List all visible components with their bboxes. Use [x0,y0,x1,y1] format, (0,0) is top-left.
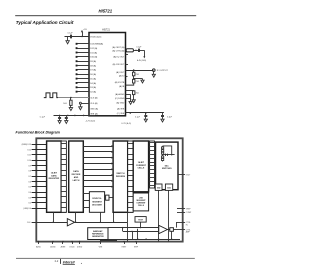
op-amp U3 control amp [159,225,168,233]
svg-text:BANDGAP: BANDGAP [93,230,103,233]
svg-text:14-BIT: 14-BIT [51,172,58,175]
svg-text:50Ω: 50Ω [167,187,171,189]
svg-text:0.1µF: 0.1µF [136,47,142,49]
wire internal VEE bus [109,239,181,241]
pin VREF [183,208,185,210]
svg-text:LATCH: LATCH [73,179,80,182]
block: switch drivers [113,141,128,212]
wire VEE bus junction segment [100,240,117,241]
svg-text:+5V: +5V [83,29,87,31]
wire VREF internal [177,208,183,210]
wire CLK [58,97,89,99]
svg-text:50Ω: 50Ω [157,187,161,189]
resistor RT2 50 ohm [165,184,172,190]
ground (C2) [58,121,61,124]
wire AGND pins [126,94,131,96]
svg-text:D2 (A): D2 (A) [90,90,96,93]
wire IOUTB return [126,83,134,85]
svg-text:(A) VEE: (A) VEE [117,108,125,111]
svg-text:DECODE: DECODE [72,174,81,176]
svg-text:AVDD: AVDD [36,246,42,249]
connector J1 IF OUTPUT [153,69,156,72]
svg-text:SWITCH: SWITCH [116,173,125,175]
ground (below R1) [69,108,72,111]
wire CTRL IN [176,222,183,224]
svg-text:DVDD: DVDD [69,247,75,249]
block: segment decode register [69,141,84,212]
pin D10 [76,56,78,58]
pin D9 [76,60,78,62]
capacitor C2 [58,117,61,119]
ground (C3) [65,121,68,124]
svg-text:(A) GND: (A) GND [116,101,124,104]
svg-text:ROW/COL: ROW/COL [92,198,102,200]
svg-text:(A) CIN OUT: (A) CIN OUT [113,63,125,66]
svg-text:-5.2V (A,D): -5.2V (A,D) [121,122,131,125]
small box B [106,195,109,200]
svg-text:D5: D5 [29,187,31,189]
svg-text:HI5721: HI5721 [102,28,110,31]
block: test logic [135,217,146,223]
transistor Q1 current source chain [162,146,175,162]
svg-text:VREF: VREF [186,208,192,210]
svg-text:D2: D2 [29,203,31,205]
block diagram outer border [36,138,182,241]
svg-text:DATA: DATA [51,174,57,177]
svg-text:CLK: CLK [27,222,31,224]
svg-text:Typical Application Circuit: Typical Application Circuit [16,20,74,25]
resistor R2 25 ohm [133,70,135,72]
svg-text:3.3µF: 3.3µF [167,116,173,118]
block: input data register [47,141,62,212]
pin AVDD [38,241,40,243]
pin D12 [76,47,78,49]
pin D3 [76,86,78,88]
svg-text:DAC: DAC [165,164,170,167]
block: current cell matrix [133,141,148,192]
ground (cluster) [129,102,132,105]
svg-text:IOUT: IOUT [186,174,191,176]
wire VREF vertical [137,229,139,239]
block: switch cell column [150,141,155,188]
wire center tap to ground [134,78,143,80]
svg-text:SWITCHES: SWITCHES [162,168,173,170]
svg-text:(C) DGND: (C) DGND [115,98,125,100]
svg-text:CLK (A): CLK (A) [90,102,98,105]
footer rule [16,257,195,260]
svg-text:-5.2V (A,D): -5.2V (A,D) [85,120,95,123]
svg-text:25Ω: 25Ω [135,74,139,76]
svg-text:D11 (A): D11 (A) [90,51,97,54]
ground (C5) [144,119,147,122]
svg-text:0.1µF: 0.1µF [40,117,46,119]
svg-text:(A) I/Q OUT: (A) I/Q OUT [113,56,125,59]
svg-text:IN: IN [186,224,188,226]
block: driver latch column [128,141,134,213]
svg-text:D12: D12 [28,149,31,151]
pin AVEE [62,241,64,243]
svg-text:DECODER: DECODER [92,205,102,207]
svg-text:D6: D6 [29,181,31,183]
wire op-amp minus input [122,228,124,232]
svg-text:Functional Block Diagram: Functional Block Diagram [16,130,61,134]
resistor R4 2k [126,90,134,92]
svg-text:CLK (A): CLK (A) [90,96,98,99]
svg-text:D9 (A): D9 (A) [90,60,96,63]
block: row/column decoder [89,192,104,213]
svg-text:A-IN (50Ω): A-IN (50Ω) [137,59,146,62]
svg-text:D11: D11 [28,155,31,157]
svg-text:AND: AND [74,176,79,179]
wire decode to decoder rows [83,194,89,208]
pin AGND [52,241,54,243]
capacitor C3 [65,117,68,119]
bus wires decode to switch drivers [83,145,113,188]
svg-text:AVEE: AVEE [61,246,66,249]
pin D7 [76,69,78,71]
clock waveform symbol [44,93,58,98]
pin D11 [76,52,78,54]
svg-text:(A) IB: (A) IB [119,85,125,88]
svg-text:AGND: AGND [50,246,56,249]
resistor R1 1k [70,98,72,101]
clock buffer U2 [67,219,74,226]
svg-text:2kΩ: 2kΩ [135,93,139,95]
svg-text:D10: D10 [28,160,31,162]
svg-text:DATA: DATA [73,170,79,173]
pin DVDD [71,241,73,243]
svg-text:D7 (A): D7 (A) [90,69,96,72]
svg-text:(A) IOUT: (A) IOUT [116,71,125,74]
svg-text:VEE (A): VEE (A) [90,112,98,115]
svg-text:D12 (A): D12 (A) [90,47,97,50]
pin D5 [76,78,78,80]
svg-text:(LSB) D0: (LSB) D0 [23,208,31,210]
svg-text:IREF: IREF [134,247,139,249]
svg-text:D3 (A): D3 (A) [90,86,96,89]
svg-text:2-2: 2-2 [55,260,59,263]
svg-text:D4 (A): D4 (A) [90,82,96,85]
svg-text:D13 (MSB)(A): D13 (MSB)(A) [90,43,103,46]
svg-text:CELLS: CELLS [138,205,145,207]
svg-text:intersil: intersil [63,260,76,264]
svg-text:D10 (A): D10 (A) [90,56,97,59]
wire IOUT to edge [178,174,185,176]
svg-text:D3: D3 [29,197,31,199]
svg-text:(A) IOUTB: (A) IOUTB [115,81,125,84]
wire clock distribution [75,222,128,224]
svg-text:(MSB) D13: (MSB) D13 [22,144,31,146]
svg-text:D8: D8 [29,171,31,173]
svg-text:(A) CTRL (A): (A) CTRL (A) [112,50,124,53]
wire to load [144,50,146,57]
svg-text:GENERATOR: GENERATOR [92,235,104,238]
svg-text:1kΩ: 1kΩ [63,103,67,105]
svg-text:SEGMENT: SEGMENT [92,201,102,203]
block: reference generator [88,228,108,240]
svg-text:D4: D4 [29,192,31,194]
pin COMP [183,212,185,214]
svg-text:CURRENT: CURRENT [136,165,147,167]
svg-text:IF OUTPUT: IF OUTPUT [157,70,169,72]
pin CTRL [183,229,185,231]
pin D4 [76,82,78,84]
wire DVDD to IC [65,36,90,38]
wire +5V vertical [82,32,84,37]
IC right pin labels [112,46,125,115]
svg-text:DRIVERS: DRIVERS [116,176,126,178]
wire reference bus 1 [108,227,159,229]
ground (R4) [132,100,135,103]
svg-text:D7: D7 [29,176,31,178]
svg-text:COMP: COMP [186,212,192,214]
resistor R3 25 ohm [133,79,135,83]
pin D13 [76,43,78,45]
svg-text:REGISTER: REGISTER [49,178,60,180]
block: DAC switches detail [156,142,179,190]
svg-text:D9: D9 [29,165,31,167]
wire -5.2V rail [54,115,96,117]
wire IOUT [126,70,153,72]
svg-text:DGND: DGND [77,247,83,249]
header rule [15,15,196,16]
svg-text:DVDD (A,D): DVDD (A,D) [90,35,101,38]
svg-text:D5 (A): D5 (A) [90,77,96,80]
svg-text:CELLS: CELLS [138,168,145,170]
svg-text:(A) AGND: (A) AGND [115,93,125,96]
svg-text:(A) IO: (A) IO [119,75,125,78]
pin D2 [76,91,78,93]
wire VEE rail [126,112,164,114]
IC U1 HI5721 [89,33,126,116]
wire op-amp output to CTRL [167,229,169,231]
pin D6 [76,73,78,75]
svg-text:25Ω: 25Ω [135,81,139,83]
svg-text:0.1µF: 0.1µF [68,32,74,34]
svg-text:D8 (A): D8 (A) [90,64,96,67]
pin DGND [79,241,81,243]
ground (below connector) [79,107,82,110]
block: latch cells column [61,141,66,213]
svg-text:D6 (A): D6 (A) [90,73,96,76]
ground (J1) [152,74,155,77]
pin VEE [100,241,102,243]
ground (C6) [161,119,164,122]
wire RT2 to VEE bus [168,190,170,241]
svg-text:(A) CEXT (A): (A) CEXT (A) [112,46,124,49]
svg-text:14-BIT: 14-BIT [138,161,145,164]
pin RSET [123,241,125,243]
block: lsb current cells [133,193,148,211]
svg-text:0.1µF: 0.1µF [135,116,141,118]
resistor RT1 50 ohm [155,184,162,190]
ferrite bead FB1 [126,49,133,52]
svg-text:HI5721: HI5721 [99,9,113,14]
wire RT1 to VEE bus [158,190,160,241]
svg-text:(C) VEE: (C) VEE [117,113,125,115]
svg-text:RSET: RSET [122,247,128,249]
svg-text:GND (A): GND (A) [90,107,98,110]
pin CTRL [183,222,185,224]
ground (top left) [67,37,69,41]
pin IREF [135,241,137,243]
pin D8 [76,65,78,67]
open connector CLKB [81,103,89,105]
svg-text:VEE: VEE [99,247,103,249]
